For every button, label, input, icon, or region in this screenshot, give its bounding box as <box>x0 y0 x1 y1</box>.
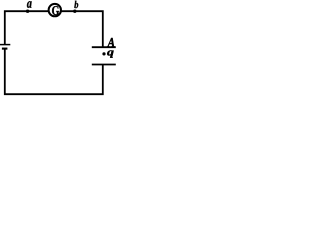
label b <box>74 1 78 8</box>
node b junction dot <box>73 10 76 13</box>
capacitor bottom plate <box>92 64 116 66</box>
capacitor top plate A <box>92 46 116 48</box>
label a <box>27 1 32 8</box>
galvanometer G body <box>49 4 61 16</box>
label q (charge) <box>107 50 113 57</box>
battery E short plate (negative) <box>2 48 8 50</box>
wire top/left loop: battery positive up left side, across top, down right to capacitor top plate <box>5 11 103 47</box>
battery E long plate (positive) <box>0 44 10 46</box>
wire bottom loop: capacitor bottom plate down, across bottom, up to battery negative <box>5 49 103 95</box>
galvanometer G letter <box>52 6 59 15</box>
label A (top plate) <box>107 38 114 47</box>
charged particle dot <box>102 52 105 55</box>
node a junction dot <box>26 10 29 13</box>
